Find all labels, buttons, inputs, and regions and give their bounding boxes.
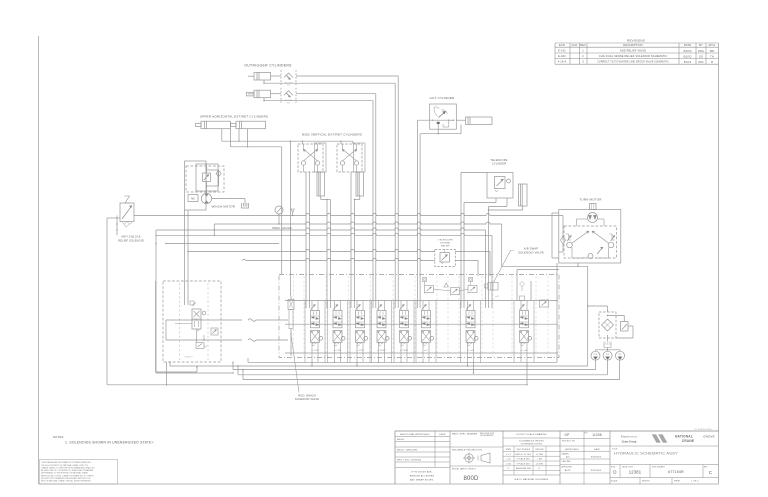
svg-text:E-191: E-191 [558, 49, 566, 53]
svg-text:12381: 12381 [629, 470, 642, 475]
svg-text:SIZE: SIZE [611, 466, 615, 468]
svg-text:w/ P: w/ P [424, 350, 429, 352]
svg-text:CRANE: CRANE [682, 439, 695, 443]
svg-text:DRAWN: DRAWN [562, 453, 570, 456]
svg-text:DO NOT SCALE DRAWING: DO NOT SCALE DRAWING [516, 433, 546, 436]
svg-text:±1.50M: ±1.50M [536, 454, 543, 456]
svg-text:±0.13M: ±0.13M [536, 463, 543, 465]
svg-text:EXTEND: EXTEND [441, 243, 451, 245]
svg-text:REPRODUCED, COPIED, LOANED OR: REPRODUCED, COPIED, LOANED OR SUBMITTED … [41, 474, 94, 477]
svg-text:Manitowoc: Manitowoc [621, 435, 638, 439]
svg-text:1. SOLENOIDS SHOWN IN UNENERGI: 1. SOLENOIDS SHOWN IN UNENERGIZED STATE> [65, 441, 154, 445]
svg-text:LIFT CYLINDER: LIFT CYLINDER [430, 96, 455, 100]
svg-text:UPPER HORIZONTAL EXT/RET CYLIN: UPPER HORIZONTAL EXT/RET CYLINDERS [200, 114, 268, 118]
svg-text:w/ swB: w/ swB [521, 350, 528, 352]
svg-text:ECN: ECN [559, 43, 565, 47]
svg-text:APPROVED: APPROVED [562, 466, 573, 469]
svg-text:HYDRAULIC SCHEMATIC ASSY: HYDRAULIC SCHEMATIC ASSY [614, 451, 678, 456]
svg-text:3RD ANGLE PROJECTION: 3RD ANGLE PROJECTION [452, 449, 482, 452]
svg-text:8/2/02: 8/2/02 [683, 55, 692, 59]
svg-text:SHEET: SHEET [674, 481, 680, 483]
svg-text:TH: TH [710, 55, 714, 59]
svg-text:±.6M: ±.6M [537, 459, 542, 461]
svg-text:OUTRIGGER CYLINDERS: OUTRIGGER CYLINDERS [244, 63, 292, 67]
svg-text:CHK: CHK [572, 43, 578, 47]
svg-text:±.005: ±.005 [506, 463, 511, 465]
svg-text:ANTI 2-BLOCK: ANTI 2-BLOCK [121, 235, 141, 239]
svg-text:11008: 11008 [592, 433, 601, 437]
svg-text:ADD RELIEF VALVE: ADD RELIEF VALVE [620, 49, 646, 53]
svg-text:TELESCOPE: TELESCOPE [438, 240, 453, 242]
svg-text:8/2/04: 8/2/04 [683, 49, 692, 53]
svg-text:REVISIONS: REVISIONS [627, 39, 645, 43]
svg-text:MID2 VERTICAL EXT/RET CYLINDER: MID2 VERTICAL EXT/RET CYLINDERS [302, 133, 362, 137]
svg-text:DATE: DATE [594, 448, 600, 451]
svg-text:DRA: DRA [698, 49, 704, 53]
svg-text:BE USED DIRECTLY OR INDIRECTLY: BE USED DIRECTLY OR INDIRECTLY IN ANY WA… [41, 469, 94, 472]
svg-text:HW DIM: HW DIM [535, 449, 543, 451]
svg-text:WINCH MOTOR: WINCH MOTOR [212, 205, 236, 209]
svg-text:DEC PLACES: DEC PLACES [517, 448, 531, 451]
svg-text:X°: X° [507, 468, 509, 470]
svg-text:A/C: A/C [566, 456, 570, 459]
svg-text:MODEL (APPLY VIDEO): MODEL (APPLY VIDEO) [452, 468, 476, 471]
svg-text:AL/PC: AL/PC [565, 469, 572, 472]
svg-text:E-462: E-462 [558, 54, 566, 58]
svg-text:CORRECT TILT/S WINTER LINE CRO: CORRECT TILT/S WINTER LINE CROSS VALVE S… [597, 61, 669, 64]
svg-text:MFG / STD / DESIGN: MFG / STD / DESIGN [397, 460, 421, 462]
svg-text:SENT OF NATIONAL CRANE CORP. A: SENT OF NATIONAL CRANE CORP. ALL RIGHTS … [41, 480, 92, 483]
svg-text:w/ swB: w/ swB [467, 350, 474, 352]
svg-text:WELD / WELDING: WELD / WELDING [397, 450, 418, 452]
svg-text:DETRIMENTAL TO THE INTEREST OF: DETRIMENTAL TO THE INTEREST OF NATIONAL … [41, 472, 89, 475]
svg-text:HRS & I FL DEC: HRS & I FL DEC [515, 454, 532, 456]
svg-text:SOLENOID VALVE: SOLENOID VALVE [518, 250, 544, 254]
svg-text:GG: GG [699, 55, 703, 59]
svg-text:WD: WD [710, 49, 715, 53]
svg-text:DATE: DATE [439, 433, 446, 436]
svg-text:GROVE: GROVE [703, 435, 715, 439]
svg-text:WITHOUT FIRST OBTAINING THE EX: WITHOUT FIRST OBTAINING THE EXPRESS WRIT… [41, 477, 91, 480]
svg-text:N/A TO MATERIAL THICKNESS: N/A TO MATERIAL THICKNESS [515, 478, 549, 481]
svg-text:DWG NUMBER: DWG NUMBER [652, 466, 665, 468]
svg-text:TOLERANCES UNLESS: TOLERANCES UNLESS [519, 440, 544, 443]
svg-text:RWN: RWN [506, 449, 511, 451]
svg-text:1 OF 1: 1 OF 1 [691, 481, 699, 483]
svg-text:ANGULAR DIM: ANGULAR DIM [516, 467, 531, 470]
svg-text:M5: M5 [191, 197, 195, 200]
svg-text:MAT'L SPEC NUMBER: MAT'L SPEC NUMBER [452, 433, 477, 436]
svg-text:REV: REV [580, 43, 586, 47]
svg-text:REMOVE ALL BURRS: REMOVE ALL BURRS [410, 475, 435, 478]
svg-text:w/TMT'U: w/TMT'U [184, 357, 193, 359]
svg-text:BY: BY [699, 43, 703, 47]
svg-text:8/2/19: 8/2/19 [684, 62, 692, 64]
svg-text:w/ PRM: w/ PRM [334, 350, 342, 352]
svg-text:3 PLACE DEC: 3 PLACE DEC [517, 462, 531, 465]
svg-text:#77154R.SLDDRW: #77154R.SLDDRW [694, 429, 712, 431]
svg-text:GP: GP [565, 433, 570, 437]
svg-text:THE SOLE PROPERTY OF NATIONAL: THE SOLE PROPERTY OF NATIONAL CRANE CORP… [41, 464, 89, 467]
svg-text:TURN MOTOR: TURN MOTOR [579, 198, 602, 202]
svg-text:CHECKED: CHECKED [562, 461, 572, 463]
svg-text:D: D [613, 470, 617, 475]
svg-text:PRES. GAUGE: PRES. GAUGE [272, 226, 292, 230]
svg-text:IF IN DOUBT ASK.: IF IN DOUBT ASK. [412, 471, 433, 474]
svg-text:A/B SWAP: A/B SWAP [524, 246, 539, 250]
svg-text:w/ PRM: w/ PRM [311, 350, 319, 352]
svg-text:±.02: ±.02 [506, 459, 510, 461]
svg-text:ADDITIONAL APPROVALS: ADDITIONAL APPROVALS [400, 433, 430, 436]
svg-text:RELIEF: RELIEF [441, 246, 450, 248]
svg-text:APVL: APVL [708, 43, 716, 47]
svg-text:w/ PRM2: w/ PRM2 [400, 350, 408, 352]
svg-text:DATE: DATE [684, 43, 691, 47]
svg-text:X / X: X / X [506, 454, 511, 456]
svg-text:X°: X° [538, 468, 540, 470]
svg-text:8/29/2004: 8/29/2004 [591, 470, 602, 472]
svg-text:2 PLACE DEC: 2 PLACE DEC [517, 458, 531, 461]
svg-text:ROD. WINCH: ROD. WINCH [298, 394, 316, 398]
svg-text:THIS DRAWING AND INFORMATION C: THIS DRAWING AND INFORMATION CONTAINED H… [41, 461, 92, 464]
svg-text:LOANED SUBJECT TO RETURN UPON: LOANED SUBJECT TO RETURN UPON DEMAND AND… [41, 466, 96, 469]
svg-text:CHG DUAL SENSE RELIEF SOLENOID: CHG DUAL SENSE RELIEF SOLENOID SCHEMATIC [599, 54, 668, 58]
svg-text:(OTHERWISE NOTED): (OTHERWISE NOTED) [521, 443, 543, 445]
svg-text:AND SHARP EDGES.: AND SHARP EDGES. [410, 479, 434, 482]
svg-text:RELIEF SOLENOID: RELIEF SOLENOID [118, 239, 143, 243]
svg-text:800D: 800D [464, 476, 479, 482]
svg-text:w/ PRM: w/ PRM [356, 350, 364, 352]
svg-text:PO#: PO# [584, 433, 588, 435]
svg-text:DRA: DRA [698, 61, 704, 64]
svg-text:CYLINDER: CYLINDER [492, 162, 506, 166]
svg-text:#77154R: #77154R [668, 470, 684, 474]
svg-text:C: C [709, 470, 713, 475]
svg-text:SOLENOID VALVE: SOLENOID VALVE [295, 397, 319, 401]
svg-text:NOTES:: NOTES: [53, 435, 64, 439]
svg-text:SCALE: SCALE [611, 480, 618, 483]
svg-text:TELESCOPE: TELESCOPE [491, 158, 508, 162]
svg-text:DESCRIPTION: DESCRIPTION [623, 43, 642, 47]
svg-text:WEIGHT: WEIGHT [642, 481, 650, 483]
svg-text:Crane Group: Crane Group [622, 441, 637, 444]
svg-text:APPROVALS: APPROVALS [565, 448, 579, 451]
svg-text:ALTERNATES: ALTERNATES [480, 434, 494, 437]
svg-text:w/ PRM2: w/ PRM2 [377, 350, 385, 352]
svg-text:ENGR: ENGR [397, 439, 404, 441]
svg-text:PROJECT NO: PROJECT NO [562, 440, 576, 442]
svg-text:4-19-A: 4-19-A [558, 60, 567, 64]
svg-text:8/29/2004: 8/29/2004 [591, 457, 602, 459]
